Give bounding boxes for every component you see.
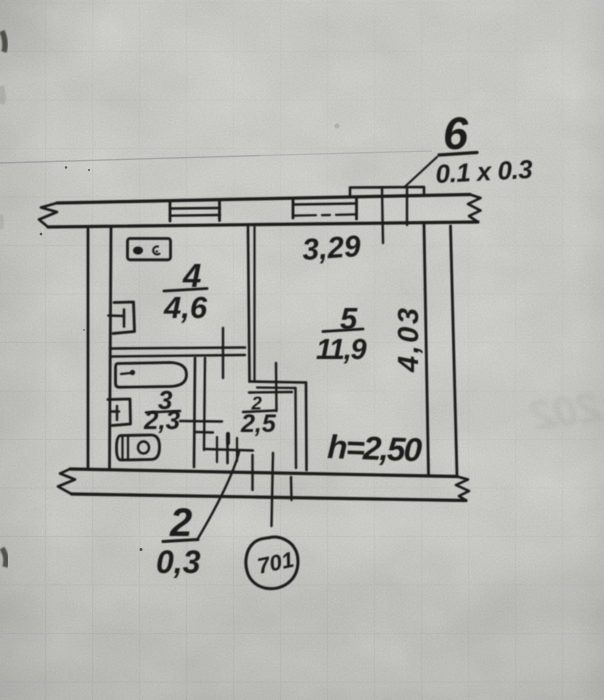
svg-text:2,3: 2,3 <box>143 405 181 435</box>
svg-text:11,9: 11,9 <box>316 334 367 366</box>
svg-text:4,03: 4,03 <box>393 306 425 373</box>
svg-text:6: 6 <box>443 108 469 159</box>
svg-text:2: 2 <box>169 501 192 545</box>
svg-text:4: 4 <box>182 257 201 294</box>
svg-text:h=2,50: h=2,50 <box>327 428 424 468</box>
svg-text:5: 5 <box>340 301 358 336</box>
svg-text:2,5: 2,5 <box>240 410 277 438</box>
svg-text:0,3: 0,3 <box>156 544 201 580</box>
svg-text:4,6: 4,6 <box>163 290 208 325</box>
svg-text:202: 202 <box>528 383 604 439</box>
svg-text:0.1 x 0.3: 0.1 x 0.3 <box>435 154 534 189</box>
svg-text:3,29: 3,29 <box>301 230 362 267</box>
